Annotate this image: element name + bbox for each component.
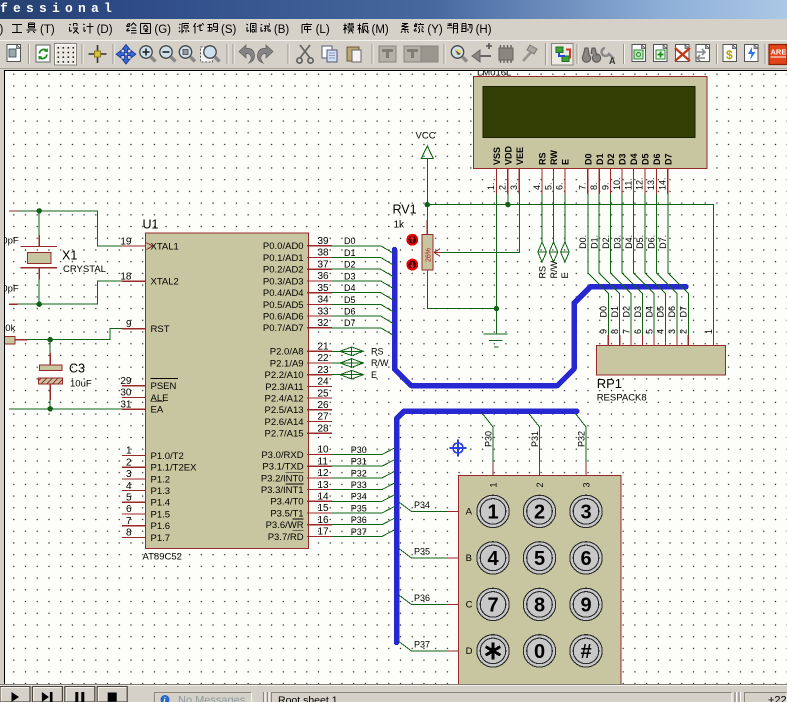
svg-text:22: 22 bbox=[318, 353, 330, 364]
svg-text:P35: P35 bbox=[414, 546, 430, 556]
svg-text:10: 10 bbox=[318, 445, 330, 456]
svg-text:3: 3 bbox=[126, 469, 132, 480]
svg-text:P3.5/T1: P3.5/T1 bbox=[270, 508, 303, 519]
svg-text:VEE: VEE bbox=[515, 147, 525, 165]
svg-text:D1: D1 bbox=[610, 306, 620, 318]
svg-text:6: 6 bbox=[126, 504, 132, 515]
svg-text:2: 2 bbox=[534, 501, 545, 523]
svg-text:26: 26 bbox=[318, 400, 330, 411]
svg-text:(D): (D) bbox=[97, 24, 113, 36]
svg-text:2: 2 bbox=[126, 457, 132, 468]
svg-text:CRYSTAL: CRYSTAL bbox=[63, 264, 106, 275]
svg-text:P33: P33 bbox=[351, 480, 367, 490]
svg-text:12.: 12. bbox=[635, 177, 645, 190]
svg-text:13: 13 bbox=[318, 480, 330, 491]
svg-text:24: 24 bbox=[318, 377, 330, 388]
svg-text:6: 6 bbox=[580, 548, 591, 570]
svg-text:P1.3: P1.3 bbox=[151, 486, 171, 497]
svg-text:19: 19 bbox=[120, 236, 132, 247]
svg-text:10.: 10. bbox=[612, 177, 622, 190]
svg-text:D0: D0 bbox=[599, 306, 609, 318]
svg-text:P34: P34 bbox=[414, 500, 430, 510]
svg-text:Root sheet 1: Root sheet 1 bbox=[278, 694, 338, 702]
svg-text:P0.2/AD2: P0.2/AD2 bbox=[263, 265, 304, 276]
svg-text:#: # bbox=[580, 641, 591, 663]
svg-text:P2.1/A9: P2.1/A9 bbox=[270, 358, 304, 369]
svg-text:3: 3 bbox=[667, 329, 677, 334]
svg-text:P34: P34 bbox=[351, 492, 367, 502]
svg-text:36: 36 bbox=[318, 271, 330, 282]
svg-text:P2.5/A13: P2.5/A13 bbox=[265, 405, 304, 416]
svg-text:0: 0 bbox=[534, 641, 545, 663]
svg-text:(G): (G) bbox=[154, 24, 171, 36]
svg-text:5: 5 bbox=[644, 329, 654, 334]
svg-text:4: 4 bbox=[487, 548, 499, 570]
svg-text:28: 28 bbox=[318, 423, 330, 434]
svg-text:17: 17 bbox=[318, 527, 330, 538]
svg-text:D4: D4 bbox=[629, 153, 639, 165]
svg-text:LM016L: LM016L bbox=[477, 70, 511, 78]
svg-text:16: 16 bbox=[318, 515, 330, 526]
svg-text:10uF: 10uF bbox=[70, 379, 92, 390]
svg-text:D4.: D4. bbox=[624, 235, 634, 249]
svg-text:2: 2 bbox=[679, 329, 689, 334]
svg-text:15: 15 bbox=[318, 503, 330, 514]
svg-text:P3.7/RD: P3.7/RD bbox=[268, 532, 304, 543]
svg-text:D3.: D3. bbox=[612, 235, 622, 249]
svg-text:D3: D3 bbox=[633, 306, 643, 318]
svg-text:RS: RS bbox=[371, 347, 384, 357]
svg-text:31: 31 bbox=[120, 399, 132, 410]
svg-text:P0.6/AD6: P0.6/AD6 bbox=[263, 312, 304, 323]
svg-text:P0.1/AD1: P0.1/AD1 bbox=[263, 253, 304, 264]
svg-text:D6: D6 bbox=[667, 306, 677, 318]
svg-text:No Messages: No Messages bbox=[178, 695, 246, 702]
svg-text:VDD: VDD bbox=[503, 145, 513, 165]
svg-text:RS: RS bbox=[537, 266, 547, 279]
svg-text:P3.2/INT0: P3.2/INT0 bbox=[261, 473, 304, 484]
svg-text:27: 27 bbox=[318, 412, 330, 423]
svg-text:5.: 5. bbox=[543, 182, 553, 190]
svg-text:1: 1 bbox=[126, 446, 132, 457]
svg-text:(S): (S) bbox=[221, 24, 237, 36]
svg-text:10k: 10k bbox=[4, 323, 15, 334]
svg-text:14: 14 bbox=[318, 492, 330, 503]
svg-text:P30: P30 bbox=[483, 431, 493, 447]
svg-text:(L): (L) bbox=[316, 24, 330, 36]
svg-text:P1.5: P1.5 bbox=[151, 509, 171, 520]
svg-text:2.: 2. bbox=[498, 182, 508, 190]
svg-text:D7.: D7. bbox=[658, 235, 668, 249]
svg-text:7: 7 bbox=[621, 329, 631, 334]
svg-text:8: 8 bbox=[126, 528, 132, 539]
svg-text:32: 32 bbox=[318, 318, 330, 329]
svg-text:P36: P36 bbox=[351, 515, 367, 525]
svg-text:D1.: D1. bbox=[590, 235, 600, 249]
svg-text:4: 4 bbox=[126, 481, 132, 492]
svg-text:E: E bbox=[560, 272, 570, 278]
svg-text:14.: 14. bbox=[658, 177, 668, 190]
svg-text:XTAL2: XTAL2 bbox=[151, 277, 179, 288]
svg-text:8.: 8. bbox=[589, 182, 599, 190]
svg-text:D5: D5 bbox=[344, 295, 356, 305]
svg-text:ARES: ARES bbox=[771, 48, 787, 57]
svg-text:P0.3/AD3: P0.3/AD3 bbox=[263, 276, 304, 287]
svg-text:D1: D1 bbox=[344, 248, 356, 258]
svg-text:D2: D2 bbox=[606, 153, 616, 165]
svg-text:25: 25 bbox=[318, 388, 330, 399]
svg-text:26%: 26% bbox=[426, 248, 433, 262]
svg-text:1: 1 bbox=[704, 329, 714, 334]
svg-text:P32: P32 bbox=[351, 468, 367, 478]
svg-text:RESPACK8: RESPACK8 bbox=[597, 393, 647, 404]
svg-text:P0.4/AD4: P0.4/AD4 bbox=[263, 288, 304, 299]
svg-text:35: 35 bbox=[318, 283, 330, 294]
svg-text:30: 30 bbox=[120, 388, 132, 399]
svg-text:P2.0/A8: P2.0/A8 bbox=[270, 347, 304, 358]
svg-text:D0.: D0. bbox=[578, 235, 588, 249]
svg-text:VSS: VSS bbox=[492, 147, 502, 165]
svg-text:P2.4/A12: P2.4/A12 bbox=[265, 394, 304, 405]
svg-text:30pF: 30pF bbox=[4, 284, 19, 295]
svg-text:D6: D6 bbox=[344, 307, 356, 317]
svg-text:D7: D7 bbox=[663, 153, 673, 165]
svg-text:P3.0/RXD: P3.0/RXD bbox=[261, 450, 303, 461]
svg-text:D2.: D2. bbox=[601, 235, 611, 249]
svg-text:18: 18 bbox=[120, 271, 132, 282]
svg-text:P1.2: P1.2 bbox=[151, 474, 171, 485]
svg-text:9.: 9. bbox=[600, 182, 610, 190]
svg-text:P0.0/AD0: P0.0/AD0 bbox=[263, 241, 304, 252]
svg-text:6.: 6. bbox=[555, 182, 565, 190]
svg-text:R/W: R/W bbox=[549, 261, 559, 279]
svg-text:34: 34 bbox=[318, 295, 330, 306]
svg-text:E: E bbox=[561, 159, 571, 165]
svg-text:3: 3 bbox=[581, 482, 591, 487]
svg-text:): ) bbox=[0, 24, 4, 36]
svg-text:XTAL1: XTAL1 bbox=[151, 242, 179, 253]
svg-text:AT89C52: AT89C52 bbox=[143, 552, 182, 563]
svg-text:37: 37 bbox=[318, 259, 330, 270]
svg-text:(T): (T) bbox=[40, 24, 55, 36]
svg-text:38: 38 bbox=[318, 248, 330, 259]
svg-text:13.: 13. bbox=[646, 177, 656, 190]
svg-text:RST: RST bbox=[151, 324, 170, 335]
svg-text:C3: C3 bbox=[69, 362, 85, 376]
svg-text:P3.1/TXD: P3.1/TXD bbox=[262, 462, 303, 473]
svg-text:D4: D4 bbox=[344, 283, 356, 293]
svg-text:5: 5 bbox=[534, 548, 545, 570]
svg-text:3.: 3. bbox=[509, 182, 519, 190]
svg-text:P30: P30 bbox=[351, 445, 367, 455]
svg-text:D5: D5 bbox=[641, 153, 651, 165]
svg-text:P36: P36 bbox=[414, 593, 430, 603]
svg-text:(B): (B) bbox=[274, 24, 290, 36]
svg-text:P0.7/AD7: P0.7/AD7 bbox=[263, 323, 304, 334]
svg-text:PSEN: PSEN bbox=[151, 381, 177, 392]
svg-text:P1.4: P1.4 bbox=[151, 498, 171, 509]
svg-text:R/W: R/W bbox=[371, 358, 389, 368]
svg-text:(M): (M) bbox=[372, 24, 389, 36]
svg-text:E: E bbox=[371, 370, 377, 380]
svg-text:P37: P37 bbox=[414, 639, 430, 649]
svg-text:RP1: RP1 bbox=[597, 376, 622, 391]
svg-text:12: 12 bbox=[318, 468, 330, 479]
svg-text:P1.1/T2EX: P1.1/T2EX bbox=[151, 463, 198, 474]
svg-text:EA: EA bbox=[151, 405, 164, 416]
svg-text:D0: D0 bbox=[344, 236, 356, 246]
svg-text:7.: 7. bbox=[578, 182, 588, 190]
svg-text:D7: D7 bbox=[344, 318, 356, 328]
svg-text:9: 9 bbox=[599, 329, 609, 334]
svg-text:P3.3/INT1: P3.3/INT1 bbox=[261, 485, 304, 496]
svg-text:2: 2 bbox=[535, 482, 545, 487]
svg-text:39: 39 bbox=[318, 236, 330, 247]
svg-text:D0: D0 bbox=[583, 153, 593, 165]
svg-text:RV1: RV1 bbox=[393, 203, 417, 217]
svg-text:4: 4 bbox=[656, 329, 666, 334]
svg-text:P2.2/A10: P2.2/A10 bbox=[265, 370, 304, 381]
svg-text:29: 29 bbox=[120, 376, 132, 387]
svg-text:11.: 11. bbox=[623, 178, 633, 190]
svg-text:1: 1 bbox=[488, 482, 498, 487]
svg-text:(Y): (Y) bbox=[427, 24, 443, 36]
svg-text:1k: 1k bbox=[394, 220, 406, 231]
svg-text:P1.0/T2: P1.0/T2 bbox=[151, 451, 184, 462]
svg-text:1: 1 bbox=[487, 501, 498, 523]
svg-text:C: C bbox=[466, 600, 473, 611]
svg-text:A: A bbox=[609, 56, 616, 66]
svg-text:D: D bbox=[466, 646, 473, 657]
svg-text:U1: U1 bbox=[143, 218, 159, 232]
svg-text:P3.4/T0: P3.4/T0 bbox=[270, 497, 303, 508]
svg-text:D6: D6 bbox=[652, 153, 662, 165]
svg-text:ALE: ALE bbox=[151, 393, 169, 404]
svg-text:7: 7 bbox=[126, 516, 132, 527]
svg-text:+2200: +2200 bbox=[768, 695, 787, 702]
svg-text:P31: P31 bbox=[351, 457, 367, 467]
svg-text:A: A bbox=[466, 507, 473, 518]
svg-text:7: 7 bbox=[487, 594, 498, 616]
svg-text:1.: 1. bbox=[486, 182, 496, 190]
svg-text:30pF: 30pF bbox=[4, 236, 19, 247]
svg-text:P1.7: P1.7 bbox=[151, 533, 171, 544]
svg-text:$: $ bbox=[726, 48, 733, 62]
svg-text:(H): (H) bbox=[476, 24, 492, 36]
svg-text:D4: D4 bbox=[644, 306, 654, 318]
svg-text:P35: P35 bbox=[351, 503, 367, 513]
svg-text:11: 11 bbox=[318, 456, 329, 467]
svg-text:33: 33 bbox=[318, 306, 330, 317]
svg-text:23: 23 bbox=[318, 365, 330, 376]
svg-text:P31: P31 bbox=[530, 431, 540, 447]
svg-text:RS: RS bbox=[538, 152, 548, 165]
svg-text:VCC: VCC bbox=[416, 131, 436, 142]
svg-text:P2.7/A15: P2.7/A15 bbox=[265, 429, 304, 440]
svg-text:RW: RW bbox=[549, 150, 559, 165]
svg-text:4.: 4. bbox=[532, 182, 542, 190]
svg-text:8: 8 bbox=[610, 329, 620, 334]
svg-text:D2: D2 bbox=[621, 306, 631, 318]
svg-text:D6.: D6. bbox=[647, 235, 657, 249]
svg-text:6: 6 bbox=[633, 329, 643, 334]
svg-text:D5.: D5. bbox=[635, 235, 645, 249]
svg-text:D2: D2 bbox=[344, 260, 356, 270]
svg-text:D7: D7 bbox=[679, 306, 689, 318]
svg-text:D3: D3 bbox=[344, 271, 356, 281]
svg-text:P37: P37 bbox=[351, 527, 367, 537]
svg-text:8: 8 bbox=[534, 594, 545, 616]
svg-text:P2.6/A14: P2.6/A14 bbox=[265, 417, 304, 428]
svg-text:D3: D3 bbox=[618, 153, 628, 165]
svg-text:5: 5 bbox=[126, 493, 132, 504]
svg-text:P0.5/AD5: P0.5/AD5 bbox=[263, 300, 304, 311]
svg-text:9: 9 bbox=[126, 319, 132, 330]
svg-text:X1: X1 bbox=[62, 249, 77, 263]
svg-text:21: 21 bbox=[318, 342, 330, 353]
svg-text:D1: D1 bbox=[595, 153, 605, 165]
svg-text:P2.3/A11: P2.3/A11 bbox=[265, 382, 303, 393]
svg-text:B: B bbox=[466, 553, 472, 564]
svg-text:3: 3 bbox=[580, 501, 591, 523]
svg-text:P1.6: P1.6 bbox=[151, 521, 171, 532]
svg-text:9: 9 bbox=[580, 594, 591, 616]
svg-text:P32: P32 bbox=[576, 431, 586, 447]
svg-text:P3.6/WR: P3.6/WR bbox=[266, 520, 304, 531]
svg-text:D5: D5 bbox=[656, 306, 666, 318]
